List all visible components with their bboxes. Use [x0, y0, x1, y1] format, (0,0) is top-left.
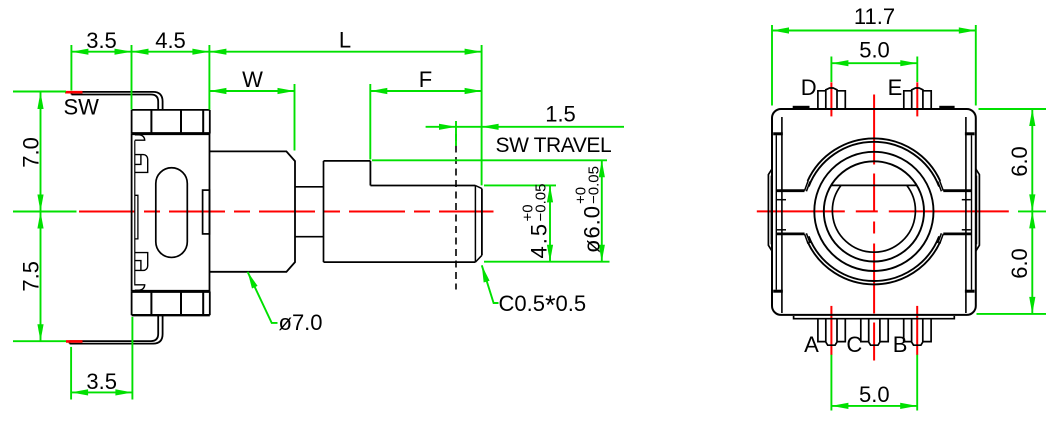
- svg-text:5.0: 5.0: [859, 382, 890, 407]
- svg-text:6.0: 6.0: [1007, 146, 1032, 177]
- bottom lip: [794, 316, 955, 319]
- shaft circle: [824, 161, 924, 261]
- svg-text:4.5: 4.5: [527, 222, 552, 259]
- SW lever top red contact: [65, 91, 83, 94]
- svg-text:E: E: [888, 75, 903, 100]
- wire: red centerline side view: [79, 211, 494, 213]
- bottom flange side view: [132, 291, 210, 315]
- front body outline: [772, 109, 976, 315]
- wire: red centerline vertical front view: [873, 95, 875, 365]
- shaft seat rectangle: [203, 190, 210, 234]
- bushing cylinder o7: [210, 151, 295, 271]
- boss outer ring arcs: [808, 138, 941, 284]
- SW lever bottom red contact: [66, 340, 83, 343]
- band steps: [777, 200, 971, 230]
- body side view outline: [132, 134, 210, 292]
- internal block top: [135, 155, 148, 173]
- dimension text diameter 6.0 with tolerance: [573, 166, 605, 253]
- front inner vertical lines: [776, 117, 971, 313]
- extension lines green: [13, 45, 610, 400]
- waist band lines: [776, 191, 971, 234]
- svg-text:W: W: [242, 67, 263, 92]
- SW travel dashed line: [455, 134, 457, 290]
- svg-text:L: L: [339, 28, 351, 53]
- svg-text:C: C: [846, 332, 862, 357]
- svg-text:−0.05: −0.05: [586, 166, 603, 204]
- neck: [295, 187, 324, 237]
- pin C: [861, 319, 888, 346]
- internal hook under top flange: [135, 135, 145, 140]
- svg-text:SW TRAVEL: SW TRAVEL: [496, 134, 612, 157]
- svg-text:3.5: 3.5: [86, 28, 117, 53]
- dimension lines with leaders: [41, 52, 625, 393]
- wire: red centerline horizontal front view: [757, 210, 1009, 212]
- pin B: [904, 319, 931, 346]
- red pin marks: [831, 82, 917, 355]
- svg-text:7.5: 7.5: [19, 261, 44, 292]
- pin A: [818, 319, 845, 346]
- svg-text:SW: SW: [64, 95, 100, 120]
- svg-text:5.0: 5.0: [859, 38, 890, 63]
- oval slot: [156, 168, 188, 258]
- middle ring: [814, 152, 933, 271]
- svg-text:7.0: 7.0: [19, 137, 44, 168]
- svg-text:3.5: 3.5: [86, 369, 117, 394]
- svg-text:B: B: [893, 332, 908, 357]
- corner post caps: [773, 132, 974, 292]
- top edge bumps: [793, 106, 810, 109]
- svg-text:ø6.0: ø6.0: [580, 205, 605, 253]
- internal block bottom: [135, 253, 148, 271]
- arrows: [37, 49, 604, 396]
- svg-text:F: F: [419, 67, 432, 92]
- shaft o6 with flat: [324, 161, 482, 262]
- SW travel tick: [455, 121, 457, 146]
- svg-text:C0.5*0.5: C0.5*0.5: [499, 290, 587, 320]
- svg-text:A: A: [804, 332, 819, 357]
- internal hook above bottom flange: [135, 285, 145, 290]
- left side tab: [768, 169, 772, 251]
- svg-text:1.5: 1.5: [545, 102, 576, 127]
- shaft chamfer circle: [832, 185, 915, 252]
- band corner bevels: [805, 181, 944, 244]
- svg-text:4.5: 4.5: [155, 28, 186, 53]
- svg-text:11.7: 11.7: [854, 4, 895, 29]
- internal middle recess: [135, 195, 138, 239]
- shaft flat chord: [831, 184, 917, 186]
- SW lever top: [72, 92, 163, 110]
- pin D: [818, 88, 845, 109]
- svg-text:6.0: 6.0: [1007, 248, 1032, 279]
- right side tab: [976, 169, 980, 251]
- dimension text 4.5 with tolerance: [520, 184, 552, 259]
- svg-text:ø7.0: ø7.0: [279, 310, 323, 335]
- svg-text:−0.05: −0.05: [533, 184, 550, 222]
- svg-text:D: D: [801, 75, 817, 100]
- pin E: [904, 88, 931, 109]
- SW lever bottom: [70, 315, 163, 343]
- top flange side view: [132, 110, 210, 134]
